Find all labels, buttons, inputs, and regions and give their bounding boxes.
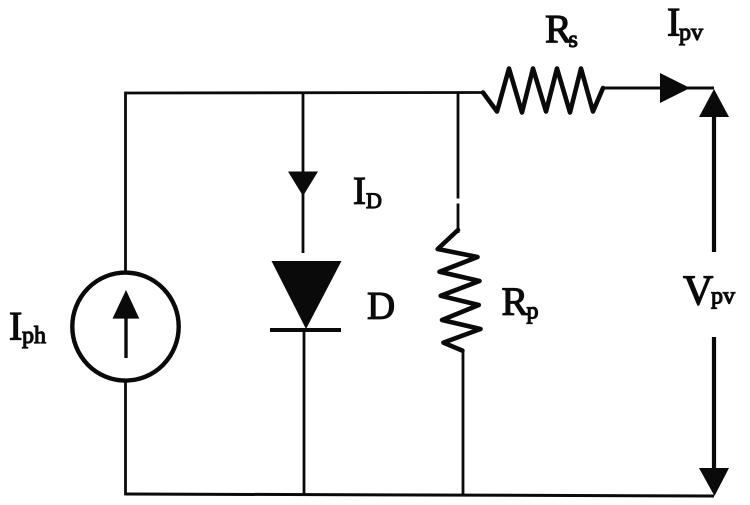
current arrow Ipv xyxy=(660,73,690,103)
label Ipv xyxy=(667,0,703,46)
label ID xyxy=(353,170,382,214)
svg-text:I: I xyxy=(9,303,22,348)
diode D (anode triangle) xyxy=(272,261,342,329)
wire left vertical bottom xyxy=(124,383,127,496)
wire left vertical top xyxy=(124,92,127,272)
current source Iph xyxy=(72,273,178,381)
label Rp xyxy=(502,279,539,325)
diode cathode bar xyxy=(270,328,341,332)
voltage arrow Vpv lower (stem + down arrowhead) xyxy=(699,337,729,496)
label Vpv xyxy=(683,269,735,315)
wire Rp branch bottom xyxy=(462,350,465,495)
svg-text:ph: ph xyxy=(22,323,46,349)
resistor Rp xyxy=(438,230,481,351)
label Iph xyxy=(9,303,46,349)
svg-text:D: D xyxy=(367,285,395,328)
svg-text:pv: pv xyxy=(711,284,735,310)
voltage arrow Vpv upper (up arrowhead + stem) xyxy=(699,89,729,252)
wire bottom rail xyxy=(126,494,715,496)
label Rs xyxy=(545,7,578,53)
resistor Rs xyxy=(483,69,603,113)
svg-text:V: V xyxy=(683,269,713,315)
wire diode branch top xyxy=(302,93,305,254)
svg-text:D: D xyxy=(366,188,382,213)
svg-text:p: p xyxy=(527,299,539,325)
wire top rail to right corner xyxy=(686,87,714,90)
svg-text:R: R xyxy=(502,279,529,324)
wire top rail left segment xyxy=(126,91,484,94)
wire top rail right segment xyxy=(603,87,663,90)
wire diode branch bottom xyxy=(303,330,306,495)
current arrow ID xyxy=(288,172,318,197)
svg-text:s: s xyxy=(569,27,578,53)
wire Rp branch top (with small break) xyxy=(457,92,460,233)
svg-text:I: I xyxy=(353,170,366,213)
svg-text:pv: pv xyxy=(679,20,703,46)
